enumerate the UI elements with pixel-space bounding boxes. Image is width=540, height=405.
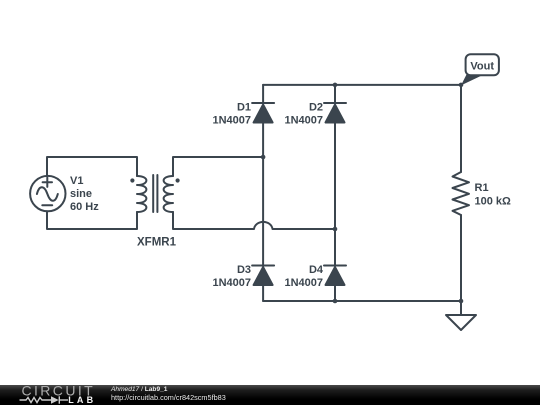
svg-text:D1: D1	[237, 102, 251, 114]
svg-text:Vout: Vout	[470, 61, 494, 73]
label D3	[212, 264, 251, 289]
wire node A vertical	[262, 123, 264, 266]
footer credit line	[110, 386, 226, 402]
svg-text:1N4007: 1N4007	[212, 115, 251, 127]
svg-text:http://circuitlab.com/cr842scm: http://circuitlab.com/cr842scm5fb83	[111, 393, 226, 402]
net flag Vout	[461, 54, 499, 85]
svg-text:XFMR1: XFMR1	[137, 237, 177, 249]
wire D3 to bottom rail	[262, 285, 264, 301]
wire D2 to top rail	[334, 85, 336, 103]
label R1 value	[475, 182, 512, 208]
ground	[446, 301, 476, 330]
wire bottom rail	[263, 300, 461, 302]
svg-text:1N4007: 1N4007	[212, 277, 251, 289]
junction node A	[261, 155, 266, 160]
svg-text:D3: D3	[237, 264, 251, 276]
diode D4	[324, 266, 346, 286]
wire primary bottom	[47, 211, 137, 229]
label V1 value	[70, 175, 99, 213]
wire top rail	[263, 84, 461, 86]
wire D4 to bottom rail	[334, 285, 336, 301]
junction top rail D2	[333, 83, 338, 88]
svg-text:D2: D2	[309, 102, 323, 114]
svg-text:R1: R1	[475, 182, 489, 194]
wire primary top	[47, 157, 137, 176]
svg-text:60 Hz: 60 Hz	[70, 201, 99, 213]
transformer XFMR1	[130, 175, 179, 212]
wire secondary top	[173, 157, 263, 176]
label D4	[284, 264, 323, 289]
label D1	[212, 102, 251, 127]
wire right branch down to R1	[460, 85, 462, 172]
resistor R1	[453, 172, 470, 215]
wire D1 to top rail	[262, 85, 264, 103]
voltage source V1	[30, 176, 65, 211]
footer bar	[0, 385, 540, 405]
label XFMR1	[137, 237, 177, 249]
diode D1	[252, 103, 274, 123]
svg-text:1N4007: 1N4007	[284, 277, 323, 289]
diode D2	[324, 103, 346, 123]
svg-text:Ahmed17 / Lab9_1: Ahmed17 / Lab9_1	[110, 386, 168, 393]
junction ground	[459, 299, 464, 304]
wire node B vertical	[334, 123, 336, 266]
wire secondary bottom with hop	[173, 212, 335, 229]
svg-text:sine: sine	[70, 188, 92, 200]
junction node B	[333, 227, 338, 232]
svg-text:V1: V1	[70, 175, 83, 187]
wire R1 to ground rail	[460, 215, 462, 301]
junction Vout corner	[459, 83, 464, 88]
svg-text:1N4007: 1N4007	[284, 115, 323, 127]
svg-text:LAB: LAB	[68, 395, 96, 405]
CircuitLab logo schematic	[20, 396, 69, 403]
diode D3	[252, 266, 274, 286]
label D2	[284, 102, 323, 127]
svg-text:100 kΩ: 100 kΩ	[475, 196, 512, 208]
svg-text:D4: D4	[309, 264, 324, 276]
junction bottom rail D4	[333, 299, 338, 304]
